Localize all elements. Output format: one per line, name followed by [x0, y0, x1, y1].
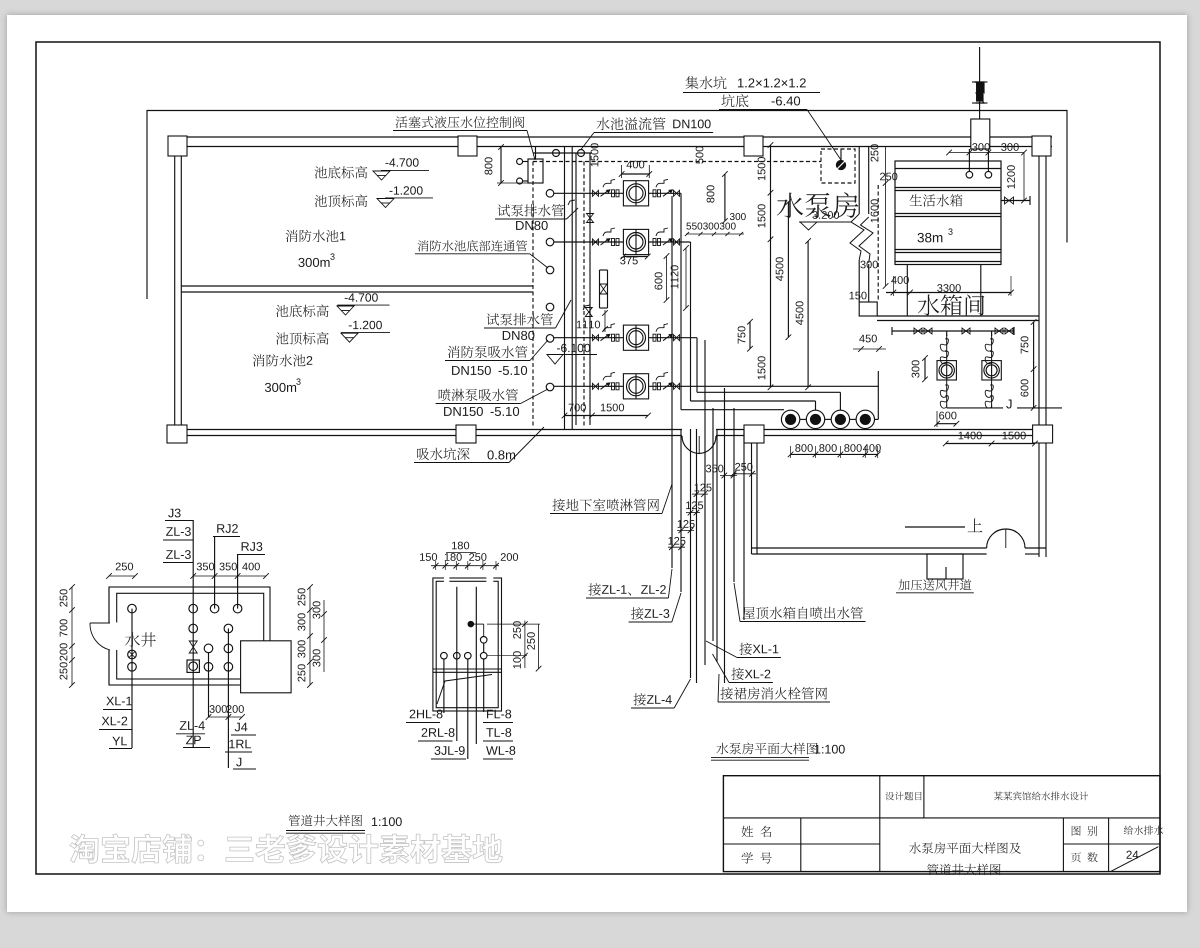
pool wall flange circles: [546, 190, 554, 391]
test bypass loop: [577, 270, 608, 332]
label 试泵排水管 1: [495, 204, 578, 230]
wall plan right: [1039, 155, 1046, 557]
wall pool right: [565, 147, 573, 430]
detail1 top labels: [163, 509, 265, 563]
detail2 dims top: [420, 542, 518, 570]
wall lower room bottom: [752, 548, 1047, 554]
label 消防水池底部连通管: [415, 240, 548, 268]
text 上 with line: [905, 518, 982, 532]
floor penetration sleeves: [781, 410, 874, 428]
outer overflow-pipe boundary: [147, 111, 1067, 300]
dims tank left: [850, 144, 898, 299]
tankroom pump B: [982, 331, 1001, 408]
dim chain center 1500 1500: [758, 142, 774, 390]
tank outlet valve: [1001, 196, 1030, 205]
detail2 circles: [441, 621, 487, 659]
big text 水箱间: [918, 294, 985, 315]
pipes to floor penetrations: [681, 193, 878, 419]
label 接ZL-3: [629, 593, 681, 622]
pump P3 discharge: [649, 324, 697, 342]
tank supports: [907, 265, 981, 317]
caption 水泵房平面大样图: [711, 743, 845, 761]
pump P2 discharge: [649, 228, 691, 246]
dim 375 below pump2: [620, 254, 650, 265]
suction pit dashed lines: [533, 162, 878, 429]
tank 生活水箱: [895, 149, 1001, 265]
label 消防泵吸水管: [445, 340, 548, 375]
dim 1200 rot: [1007, 153, 1027, 204]
wall top: [168, 137, 1052, 147]
detail2 dims right: [487, 621, 541, 672]
wall pumproom-tankroom with break: [850, 147, 877, 317]
vertical riser bundle: [672, 196, 744, 683]
detail2 labels: [406, 710, 515, 759]
dim 800 right of pump1: [707, 171, 728, 224]
title block table: [723, 776, 1160, 872]
pump P1: [623, 181, 648, 206]
tankroom pump A: [937, 331, 956, 408]
dim 300 rot pumpA: [912, 355, 928, 382]
pump P4: [623, 374, 648, 399]
dim 550 300 300 cluster: [685, 213, 746, 236]
detail1 corner box: [241, 641, 292, 693]
wall lower room left: [752, 436, 758, 555]
dim 4500 b: [796, 238, 811, 390]
detail1 bottom labels: [99, 697, 256, 769]
detail1 text 水井: [125, 632, 156, 647]
dim 450: [853, 335, 886, 352]
label 接ZL-4: [631, 679, 691, 708]
dim 800 left-top: [485, 144, 528, 186]
watermark: [70, 834, 503, 864]
dim 600 1120 below pump2: [655, 245, 689, 311]
detail2 shaft walls: [433, 577, 502, 711]
wall tankroom bottom: [877, 316, 1039, 321]
pump P4 discharge: [649, 372, 879, 390]
dim 700 1500 bottom-left: [562, 404, 651, 419]
door lower-right room: [987, 529, 1025, 548]
pump P4 suction pipe: [554, 372, 624, 390]
wall left: [175, 155, 182, 430]
detail1 dims left: [60, 584, 75, 688]
dim 600 tankroom: [934, 411, 959, 427]
pump P1 suction pipe: [554, 179, 624, 197]
pool1 text block: [286, 158, 433, 267]
door double lower-wall: [682, 436, 716, 454]
elevation -6.100: [547, 344, 597, 364]
detail1 well walls: [90, 587, 270, 685]
valves on suction header: [568, 200, 594, 317]
label 集水坑: [683, 76, 841, 160]
dim 500 rot: [696, 146, 704, 164]
dim 750 600 right: [1021, 319, 1037, 411]
tankroom suction pipe: [892, 327, 1014, 335]
label 吸水坑深 0.8m: [414, 427, 544, 463]
wall bottom long: [168, 430, 1052, 436]
pump P3 suction pipe: [554, 324, 624, 342]
dim 400 3300 tankroom: [886, 276, 1014, 296]
suction header pipes: [576, 153, 590, 425]
dim 4500 a: [776, 199, 792, 340]
dim chain pool top 1500s: [591, 143, 599, 166]
columns: [167, 136, 1053, 443]
pump P1 discharge: [649, 179, 681, 197]
pump P2: [623, 229, 648, 254]
caption 管道井大样图: [286, 815, 402, 834]
dim 800x3 400: [788, 444, 881, 458]
big text 水泵房: [777, 192, 858, 230]
detail1 dims right: [298, 584, 327, 688]
label 接地下室喷淋管网: [550, 484, 672, 514]
pump P3: [623, 325, 648, 350]
float control valve: [517, 147, 543, 185]
pipe top with flanges: [533, 150, 592, 157]
pump P2 suction pipe: [554, 228, 624, 246]
label 接ZL-1、ZL-2: [586, 569, 672, 598]
detail1 dims top: [106, 563, 269, 579]
pit pump: [836, 149, 846, 170]
label 接XL-2: [713, 654, 773, 683]
detail2 riser stubs: [444, 587, 484, 759]
riser to roof at tank: [971, 47, 990, 149]
shaft 加压送风井道 outline: [927, 554, 963, 579]
dim 750 rot: [738, 319, 753, 352]
label 水池溢流管 DN100: [581, 117, 713, 149]
detail2 diagonal pipe: [437, 675, 492, 705]
dim 400 above pump1: [619, 161, 652, 178]
detail1 riser circles: [128, 604, 242, 671]
label 接裙房消火栓管网: [718, 674, 830, 702]
label 屋顶水箱自喷出水管: [734, 583, 866, 622]
dim 1400 1500: [943, 432, 1038, 447]
dims riser bundle 350 250 125s: [668, 463, 756, 550]
detail1 riser lines: [132, 520, 238, 768]
collecting pit dashed: [821, 149, 855, 183]
pool2 text block: [253, 293, 390, 392]
title block texts: [742, 792, 1164, 876]
label 接XL-1: [706, 641, 781, 658]
label 活塞式液压水位控制阀: [393, 116, 535, 160]
dims tank top 300 300: [946, 143, 1027, 155]
detail1 valve: [187, 641, 199, 672]
label 喷淋泵吸水管: [436, 389, 548, 416]
label 加压送风井道: [896, 579, 974, 593]
wall pool divider: [181, 286, 533, 292]
J discharge line: [947, 399, 1062, 408]
label 试泵排水管 2: [484, 300, 571, 340]
